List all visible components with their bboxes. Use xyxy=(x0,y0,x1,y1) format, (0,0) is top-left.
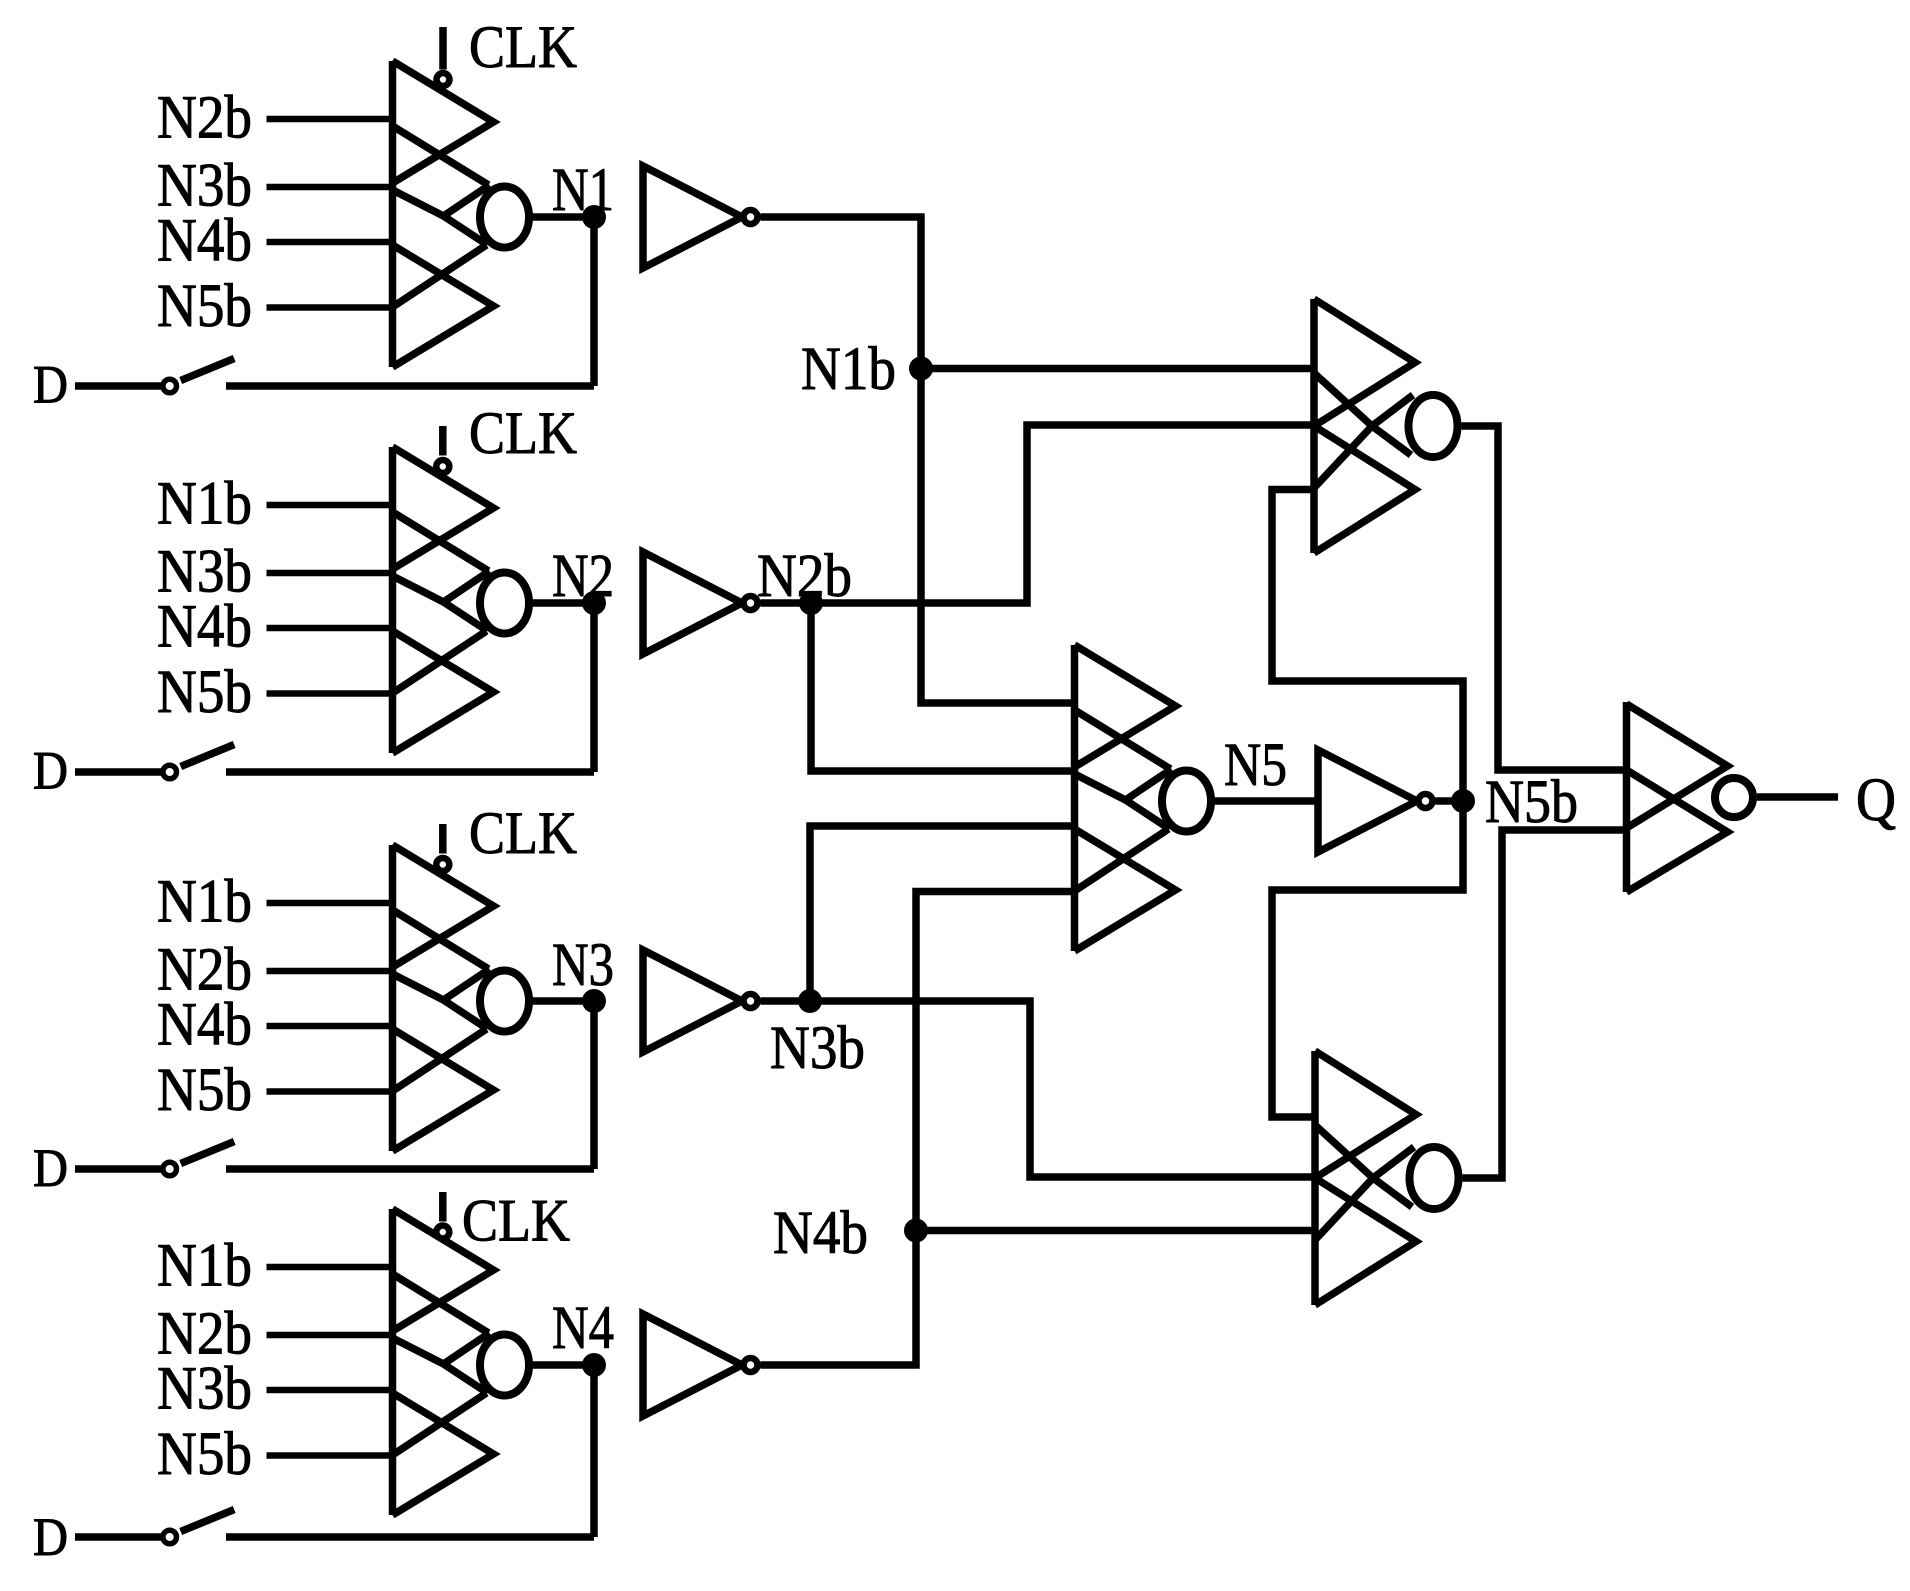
wire N2b right, up and right to CE6 input 2 xyxy=(811,425,1314,603)
svg-text:N5b: N5b xyxy=(157,659,252,726)
wire INV3 output to node N3b xyxy=(761,997,811,1005)
inverter INV5 xyxy=(1318,750,1433,852)
svg-text:N4: N4 xyxy=(552,1295,614,1362)
wire switch SW4 to node N4 vertical xyxy=(226,1533,594,1541)
svg-text:N1b: N1b xyxy=(801,336,896,403)
svg-text:D: D xyxy=(33,355,68,415)
svg-text:CLK: CLK xyxy=(469,400,577,466)
svg-text:N5b: N5b xyxy=(157,1421,252,1488)
svg-text:N1b: N1b xyxy=(157,869,252,936)
switch SW1 (D sampling) xyxy=(163,359,234,393)
svg-text:N3b: N3b xyxy=(157,1356,252,1423)
node N2 junction dot xyxy=(582,591,606,615)
svg-text:N1b: N1b xyxy=(157,471,252,538)
node N3b junction dot xyxy=(798,989,822,1013)
wire INV4 output right and up to node N4b xyxy=(761,1231,917,1366)
CLK pin of CE1 xyxy=(437,27,450,86)
svg-text:N4b: N4b xyxy=(773,1200,868,1267)
wire D3 to switch xyxy=(75,1165,161,1173)
node N4 junction dot xyxy=(582,1353,606,1377)
switch SW3 (D sampling) xyxy=(163,1142,234,1176)
inverter INV4 xyxy=(643,1314,758,1416)
inverter INV2 xyxy=(643,552,758,654)
wire D1 to switch xyxy=(75,382,161,390)
svg-text:N2b: N2b xyxy=(157,85,252,152)
svg-text:N4b: N4b xyxy=(157,594,252,661)
wire N3b right, down and right to CE7 input 2 xyxy=(810,1001,1315,1177)
svg-text:N3b: N3b xyxy=(770,1015,865,1082)
inverter INV1 xyxy=(643,166,758,268)
C-element CE5 (keeper, output N5) xyxy=(949,645,1212,951)
wire node N2 down to D switch row 2 xyxy=(590,603,598,772)
wire CE1 output to node N1 xyxy=(529,213,594,221)
wire CE6 output down and right to CE8 input 1 xyxy=(1462,426,1627,770)
wire CE3 output to node N3 xyxy=(529,997,594,1005)
wire switch SW3 to node N3 vertical xyxy=(226,1165,594,1173)
wire N2b down and right to CE5 input 2 xyxy=(811,603,1075,771)
svg-text:Q: Q xyxy=(1856,767,1896,834)
wire D2 to switch xyxy=(75,768,161,776)
node N3 junction dot xyxy=(582,989,606,1013)
wire INV5 output to node N5b xyxy=(1436,797,1453,805)
node N1b junction dot xyxy=(909,357,933,381)
C-element CE6 (top right) xyxy=(1314,299,1458,553)
svg-text:N5: N5 xyxy=(1224,732,1287,799)
node N1 junction dot xyxy=(582,205,606,229)
svg-text:CLK: CLK xyxy=(462,1188,570,1254)
C-element CE3 (clocked, output N3) xyxy=(267,845,530,1151)
wire N5b up, left, up and right to CE6 input 3 xyxy=(1272,490,1463,802)
svg-text:D: D xyxy=(33,741,68,801)
svg-text:D: D xyxy=(33,1138,68,1198)
svg-text:CLK: CLK xyxy=(469,14,577,80)
wire switch SW2 to node N2 vertical xyxy=(226,768,594,776)
inverter INV3 xyxy=(643,950,758,1052)
CLK pin of CE2 xyxy=(436,426,449,473)
svg-text:D: D xyxy=(33,1507,68,1567)
switch SW2 (D sampling) xyxy=(163,745,234,779)
wire node N1 down to D switch row 1 xyxy=(590,217,598,386)
wire INV2 output to node N2b xyxy=(761,599,812,607)
CLK pin of CE4 xyxy=(436,1192,449,1239)
svg-text:N1: N1 xyxy=(552,157,614,224)
wire N4b up and right to CE5 input 4 xyxy=(916,892,1075,1231)
wire N1b down and right to CE5 input 1 xyxy=(921,369,1075,704)
svg-text:N2: N2 xyxy=(552,543,614,610)
wire CE2 output to node N2 xyxy=(529,599,594,607)
wire N3b up and right to CE5 input 3 xyxy=(810,826,1075,1001)
svg-text:N4b: N4b xyxy=(157,992,252,1059)
wire CE4 output to node N4 xyxy=(529,1361,594,1369)
svg-text:N5b: N5b xyxy=(157,1057,252,1124)
wire node N4 down to D switch row 4 xyxy=(590,1365,598,1537)
wire N4b right to CE7 input 3 xyxy=(916,1227,1315,1235)
node N5b junction dot xyxy=(1451,789,1475,813)
C-element CE7 (bottom right) xyxy=(1315,1051,1459,1305)
svg-text:N1b: N1b xyxy=(157,1233,252,1300)
svg-text:N3: N3 xyxy=(552,932,614,999)
svg-text:N4b: N4b xyxy=(157,208,252,275)
wire CE5 output to inverter INV5 xyxy=(1211,797,1318,805)
C-element CE2 (clocked, output N2) xyxy=(267,447,530,753)
wire CE8 output to Q xyxy=(1757,793,1838,801)
node N4b junction dot xyxy=(904,1219,928,1243)
wire D4 to switch xyxy=(75,1533,161,1541)
svg-text:N5b: N5b xyxy=(1485,769,1578,836)
C-element CE1 (clocked, output N1) xyxy=(267,61,530,367)
switch SW4 (D sampling) xyxy=(163,1510,234,1544)
C-element CE4 (clocked, output N4) xyxy=(267,1209,530,1515)
CLK pin of CE3 xyxy=(436,824,449,871)
wire CE7 output up and right to CE8 input 2 xyxy=(1463,830,1627,1178)
wire node N3 down to D switch row 3 xyxy=(590,1001,598,1169)
C-element CE8 (output stage) xyxy=(1627,702,1754,892)
svg-text:CLK: CLK xyxy=(469,800,577,866)
svg-text:N5b: N5b xyxy=(157,273,252,340)
wire N5b down, left, down and right to CE7 input 1 xyxy=(1272,801,1463,1117)
wire switch SW1 to node N1 vertical xyxy=(226,382,594,390)
wire INV1 output to N1b corner xyxy=(761,217,922,369)
node N2b junction dot xyxy=(799,591,823,615)
wire N1b to CE6 input 1 xyxy=(921,365,1314,373)
